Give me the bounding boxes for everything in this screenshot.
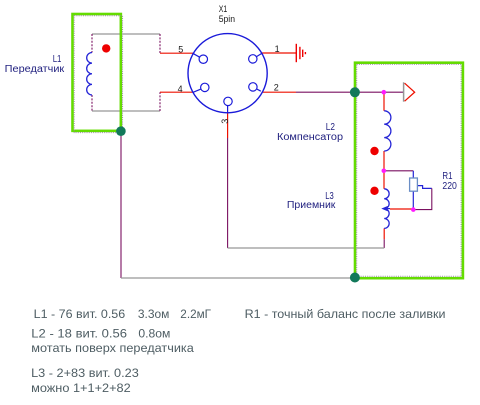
ground symbol (red)	[296, 44, 305, 62]
svg-text:2: 2	[274, 83, 279, 93]
svg-text:Приемник: Приемник	[287, 200, 336, 211]
shield box receiver dotted outline	[357, 64, 461, 276]
pin 4 stub	[193, 87, 205, 92]
wire to pin 4 (red)	[160, 91, 193, 93]
wire node B to R1 top (purple)	[384, 170, 414, 172]
buffer triangle bar (gray)	[403, 82, 405, 101]
wire L1 bottom (gray)	[92, 110, 160, 112]
wire L1 top (gray)	[92, 33, 160, 35]
wire R1 wiper (blue)	[417, 186, 431, 189]
wire node A down to L2 (red)	[383, 92, 385, 111]
L2 polarity dot (red)	[370, 147, 378, 155]
svg-text:L3 - 2+83 вит. 0.23: L3 - 2+83 вит. 0.23	[31, 366, 139, 380]
pin 2 circle	[249, 83, 257, 91]
pin 3 stub	[227, 102, 229, 113]
svg-text:2.2мГ: 2.2мГ	[180, 307, 211, 321]
svg-text:0.8ом: 0.8ом	[138, 326, 170, 340]
junction right shield top	[350, 87, 360, 97]
svg-text:L2 - 18 вит. 0.56: L2 - 18 вит. 0.56	[31, 326, 127, 340]
wire L1 left bottom stub (purple)	[91, 95, 93, 111]
wire L3 bottom (red)	[383, 228, 385, 239]
wire to pin 5 (red)	[160, 52, 194, 54]
wire jog to pin4 (purple vertical)	[159, 92, 161, 111]
inductor L2 coil	[384, 111, 391, 151]
inductor L1 coil	[87, 53, 92, 96]
pin 5 circle	[199, 55, 207, 63]
wire node B down to L3 (red)	[383, 171, 385, 189]
connector X1 body circle	[188, 34, 267, 113]
wire R1 bottom terminal (blue)	[412, 191, 414, 209]
shield box transmitter (green)	[73, 14, 121, 131]
wire ground bus horizontal (gray)	[121, 277, 355, 279]
node B	[382, 169, 387, 174]
buffer triangle (red)	[405, 83, 415, 101]
L3 polarity dot (red)	[370, 187, 378, 195]
L3 tap arrowhead	[381, 206, 387, 211]
svg-text:3: 3	[220, 119, 230, 124]
svg-text:3.3ом: 3.3ом	[138, 307, 170, 321]
node A	[382, 90, 387, 95]
pin 3 circle	[224, 97, 232, 105]
svg-text:220: 220	[442, 181, 457, 192]
wire pin2 right (red)	[262, 91, 296, 93]
wire L3 bottom (purple)	[383, 239, 385, 248]
wire L3 tap (blue)	[385, 208, 391, 210]
pin 4 circle	[201, 83, 209, 91]
pin 5 stub	[193, 53, 204, 59]
shield box receiver (green)	[355, 63, 463, 279]
wire pin3 down (red)	[227, 113, 229, 138]
svg-text:можно 1+1+2+82: можно 1+1+2+82	[31, 381, 131, 395]
svg-text:R1 - точный баланс после залив: R1 - точный баланс после заливки	[245, 307, 446, 321]
wire L3 tap to node C (red)	[390, 208, 413, 210]
wire wiper to node C (purple)	[413, 188, 432, 209]
wire L1 left top stub (purple)	[91, 34, 93, 53]
svg-text:Передатчик: Передатчик	[5, 64, 65, 75]
svg-text:5: 5	[178, 44, 183, 54]
node C	[411, 207, 416, 212]
shield box transmitter dotted outline	[74, 16, 122, 133]
svg-text:4: 4	[178, 84, 183, 94]
svg-text:Компенсатор: Компенсатор	[277, 132, 343, 143]
wire bottom middle (gray)	[228, 247, 385, 249]
inductor L3 coil	[384, 189, 389, 229]
wire pin3 down (purple)	[227, 138, 229, 248]
wire ground bus vertical (purple)	[120, 112, 122, 278]
pin 2 stub	[253, 87, 261, 91]
wire node A to buffer (purple)	[384, 91, 404, 93]
pin 1 stub	[253, 53, 262, 59]
svg-text:X1: X1	[219, 4, 228, 14]
pin 1 circle	[249, 55, 257, 63]
svg-text:5pin: 5pin	[219, 14, 235, 24]
junction right shield bottom	[350, 273, 360, 283]
wire jog to pin5 (purple vertical)	[159, 34, 161, 53]
svg-text:L1 - 76 вит. 0.56: L1 - 76 вит. 0.56	[34, 307, 126, 321]
L1 polarity dot (red)	[102, 44, 110, 52]
svg-text:мотать поверх передатчика: мотать поверх передатчика	[31, 341, 194, 355]
svg-text:1: 1	[275, 44, 280, 54]
junction left shield	[116, 126, 126, 136]
wire pin2 to node A (purple)	[296, 91, 384, 93]
wire R1 top terminal (blue)	[412, 171, 414, 178]
wire L2 bottom to node B (red)	[383, 151, 385, 171]
resistor R1 body	[410, 178, 418, 191]
wire pin1 to ground (red)	[262, 52, 297, 54]
